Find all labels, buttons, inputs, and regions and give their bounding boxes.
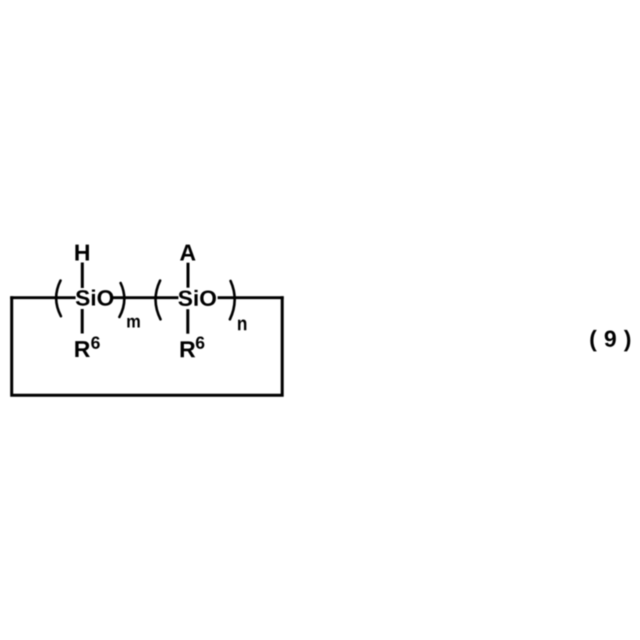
bond H-Si (81, 263, 84, 289)
label SiO unit 2 (178, 290, 216, 306)
superscript 6 unit 2 (196, 336, 204, 348)
ring box (polymer cycle) left/bottom/right edges (12, 296, 283, 395)
label R unit 2 (181, 341, 196, 357)
label A (180, 245, 195, 261)
open parenthesis unit 2 (156, 281, 161, 320)
backbone wire segment right (218, 296, 284, 299)
label R unit 1 (75, 341, 90, 357)
superscript 6 unit 1 (91, 336, 99, 348)
label SiO unit 1 (76, 290, 114, 306)
label H (75, 245, 89, 261)
close parenthesis unit 1 (119, 283, 124, 317)
subscript m (127, 318, 139, 328)
close parenthesis unit 2 (230, 281, 235, 319)
backbone wire segment middle (113, 296, 178, 299)
open parenthesis unit 1 (56, 281, 61, 317)
formula number (9) (590, 330, 630, 351)
subscript n (238, 320, 246, 331)
backbone wire segment left (10, 296, 75, 299)
bond A-Si (187, 263, 190, 288)
bond Si-R6 unit 1 (81, 309, 84, 334)
bond Si-R6 unit 2 (186, 309, 189, 334)
